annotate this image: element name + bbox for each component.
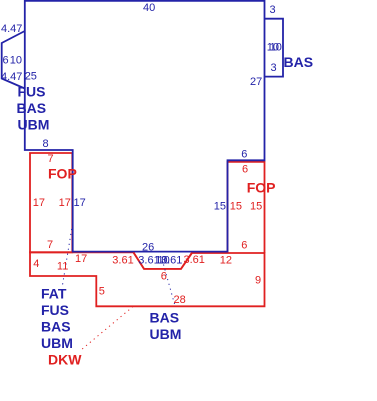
blue dashed leader middle <box>164 265 175 305</box>
svg-text:7: 7 <box>48 153 54 165</box>
svg-text:7: 7 <box>47 239 53 251</box>
svg-text:6: 6 <box>3 55 9 67</box>
svg-text:15: 15 <box>250 201 262 213</box>
red dashed leader DKW <box>81 307 133 351</box>
svg-text:3.61: 3.61 <box>184 254 205 266</box>
svg-text:6: 6 <box>161 271 167 283</box>
svg-text:UBM: UBM <box>41 335 73 351</box>
svg-text:17: 17 <box>33 197 45 209</box>
svg-text:4.47: 4.47 <box>1 71 22 83</box>
svg-text:40: 40 <box>143 2 155 14</box>
svg-text:25: 25 <box>25 71 37 83</box>
svg-text:28: 28 <box>174 294 186 306</box>
svg-text:BAS: BAS <box>284 54 314 70</box>
svg-text:4.47: 4.47 <box>1 23 22 35</box>
svg-text:6: 6 <box>241 149 247 161</box>
svg-text:FOP: FOP <box>48 166 77 182</box>
svg-text:17: 17 <box>75 253 87 265</box>
svg-text:3: 3 <box>271 62 277 74</box>
svg-text:17: 17 <box>59 197 71 209</box>
svg-text:FOP: FOP <box>247 180 276 196</box>
svg-text:UBM: UBM <box>150 326 182 342</box>
svg-text:15: 15 <box>214 201 226 213</box>
svg-text:3.61: 3.61 <box>161 255 182 267</box>
svg-text:10: 10 <box>10 55 22 67</box>
red parcel right rectangle (FOP right) <box>228 162 265 253</box>
svg-text:6: 6 <box>241 240 247 252</box>
svg-text:9: 9 <box>255 275 261 287</box>
svg-text:FAT: FAT <box>41 286 67 302</box>
svg-text:FUS: FUS <box>18 84 46 100</box>
svg-text:11: 11 <box>57 261 68 273</box>
svg-text:17: 17 <box>74 197 86 209</box>
svg-text:26: 26 <box>142 242 154 254</box>
red parcel lower polygon <box>30 252 265 306</box>
svg-text:27: 27 <box>250 76 262 88</box>
blue left bump <box>2 31 25 89</box>
red notch trapezoid redrawn on top <box>133 252 192 269</box>
svg-text:BAS: BAS <box>41 319 71 335</box>
svg-text:UBM: UBM <box>18 117 50 133</box>
svg-text:4: 4 <box>33 258 39 270</box>
svg-text:8: 8 <box>43 138 49 150</box>
svg-text:10: 10 <box>270 42 282 54</box>
svg-text:DKW: DKW <box>48 352 82 368</box>
svg-text:6: 6 <box>242 164 248 176</box>
svg-text:15: 15 <box>230 201 242 213</box>
blue dashed leader left <box>63 224 73 285</box>
blue BAS box top right <box>265 19 284 77</box>
svg-text:5: 5 <box>99 286 105 298</box>
svg-text:12: 12 <box>220 255 232 267</box>
svg-text:3.61: 3.61 <box>112 255 133 267</box>
svg-text:FUS: FUS <box>41 302 69 318</box>
blue building outline <box>25 1 265 252</box>
svg-text:3: 3 <box>270 4 276 16</box>
svg-text:BAS: BAS <box>150 310 180 326</box>
svg-text:BAS: BAS <box>17 100 47 116</box>
red parcel left rectangle (FOP left) <box>30 153 72 252</box>
